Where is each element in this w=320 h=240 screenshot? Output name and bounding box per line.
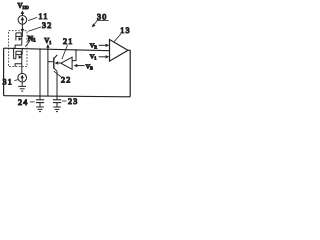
svg-text:22: 22: [61, 75, 71, 84]
leader label 22: [54, 71, 72, 84]
diode D21 (triangle): [61, 57, 72, 69]
capacitor C24: [36, 100, 44, 107]
svg-text:13: 13: [120, 26, 130, 35]
leader label 31: [3, 77, 18, 86]
capacitor C23: [53, 100, 61, 107]
input arrow V1 lower: [90, 53, 109, 60]
label 23: [62, 97, 78, 106]
svg-text:V1: V1: [90, 53, 97, 60]
svg-text:V1: V1: [44, 37, 51, 45]
svg-text:32: 32: [42, 21, 52, 30]
wire rail down to transistor Q22 base: [47, 49, 49, 96]
junction dot V1/Q22 on rail: [47, 48, 49, 50]
svg-text:24: 24: [18, 98, 28, 107]
svg-text:N1: N1: [28, 34, 36, 44]
junction dot cap 24 on rail: [39, 48, 41, 50]
ground (below 31): [18, 86, 26, 91]
input arrow VR: [90, 42, 109, 49]
junction dot T2 gate lead on rail: [13, 48, 15, 50]
label 24: [18, 98, 35, 107]
circuit label 30 with arrow: [92, 12, 109, 27]
dashed box 32: [9, 31, 27, 67]
svg-text:30: 30: [97, 12, 107, 21]
input arrow VB: [74, 64, 93, 71]
wire current source to T1 with current direction arrow: [21, 24, 25, 36]
svg-text:31: 31: [3, 77, 13, 86]
ground (below C24): [36, 107, 44, 112]
wire rail down to capacitor 24: [39, 49, 41, 100]
wire rail down to diode D21: [72, 50, 76, 61]
junction dot C24 on bottom wire: [39, 95, 41, 97]
VDD terminal arrow: [21, 10, 25, 15]
svg-text:21: 21: [63, 37, 73, 46]
junction dot T1/T2 drain on rail: [21, 48, 23, 50]
transistor T1 (upper, diode-connected, in box 32): [15, 33, 22, 48]
svg-text:VB: VB: [86, 64, 93, 71]
rail wire node V1 (top of feedback ring): [4, 48, 110, 51]
label V1 with up arrow on rail: [44, 37, 51, 49]
svg-text:11: 11: [39, 12, 49, 21]
leader label 13: [114, 26, 131, 42]
svg-text:VR: VR: [90, 42, 98, 49]
ground (below C23): [53, 107, 61, 112]
transistor Q22: [54, 55, 61, 71]
wire Q22 emitter down to capacitor 23: [56, 71, 58, 99]
comparator U13: [110, 40, 129, 62]
current source I2 (31): [18, 73, 27, 82]
wire bottom of ring: [4, 96, 131, 97]
node N1 label: [25, 34, 36, 47]
transistor T2 (lower, diode-connected, in box 32): [14, 49, 23, 67]
leader label 11: [28, 12, 49, 21]
leader label 32: [28, 21, 52, 31]
net VDD label: [18, 2, 29, 10]
junction dot diode feed on rail: [75, 49, 77, 51]
svg-text:VDD: VDD: [18, 2, 29, 10]
svg-text:23: 23: [68, 97, 78, 106]
wire T2 source to current source 31: [21, 64, 23, 74]
junction dot C23 on bottom wire: [56, 95, 58, 97]
leader label 21: [62, 37, 74, 59]
current source I1 (11): [18, 15, 27, 24]
wire left edge of ring: [3, 48, 5, 95]
wire current source 31 to ground: [21, 82, 23, 86]
wire comparator output down right edge of ring: [128, 50, 130, 97]
